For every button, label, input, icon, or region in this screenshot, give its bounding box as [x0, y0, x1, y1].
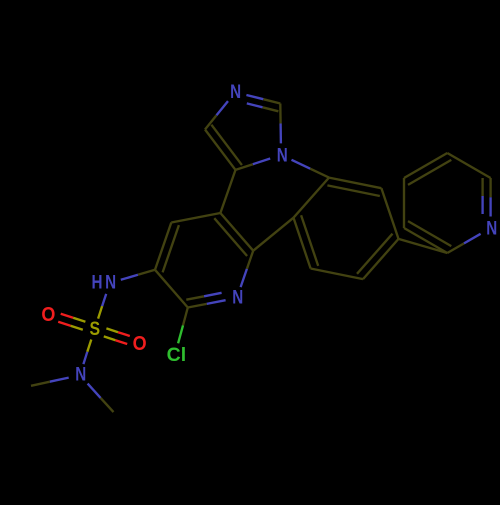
svg-text:N: N — [230, 82, 241, 103]
svg-text:S: S — [90, 319, 101, 340]
svg-text:N: N — [232, 288, 243, 309]
svg-text:N: N — [75, 365, 86, 386]
svg-text:N: N — [105, 273, 116, 294]
svg-text:N: N — [277, 145, 288, 166]
svg-text:Cl: Cl — [167, 344, 187, 366]
svg-text:N: N — [486, 219, 497, 240]
svg-text:O: O — [41, 304, 55, 326]
svg-text:O: O — [133, 333, 147, 355]
svg-text:H: H — [92, 273, 103, 294]
